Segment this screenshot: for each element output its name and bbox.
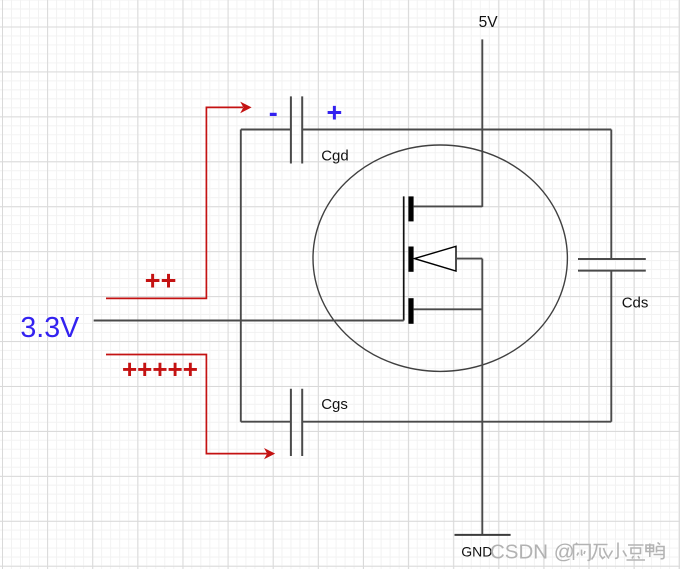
transistor M1 body diode arrow	[415, 246, 457, 271]
wire gate horizontal from 3.3V	[94, 320, 404, 322]
svg-text:Cgs: Cgs	[321, 396, 348, 413]
annotation arrowhead upper (red)	[240, 102, 251, 114]
svg-text:+: +	[327, 98, 343, 128]
transistor M1 drain contact bar	[408, 196, 413, 221]
wire right vertical upper segment	[610, 130, 612, 260]
watermark CJK glyph blocks	[574, 543, 665, 561]
svg-text:Cgd: Cgd	[321, 148, 349, 165]
wire top loop left segment	[241, 129, 291, 131]
wire top loop right segment	[302, 129, 611, 131]
ground	[455, 534, 511, 536]
capacitor Cgd	[291, 96, 302, 163]
transistor M1 drain lead	[414, 205, 483, 207]
wire bottom loop right segment	[302, 421, 611, 423]
capacitor Cgs	[291, 389, 302, 456]
annotation arrow lower (red) from gate region to Cgs	[106, 355, 267, 454]
transistor M1 NMOS envelope circle	[313, 145, 567, 371]
svg-text:CSDN @: CSDN @	[490, 540, 575, 563]
svg-text:Cds: Cds	[622, 295, 649, 312]
svg-text:3.3V: 3.3V	[20, 312, 79, 344]
svg-text:GND: GND	[461, 544, 492, 560]
svg-text:++: ++	[145, 266, 177, 296]
wire source to ground vertical	[481, 259, 483, 535]
svg-text:+++++: +++++	[122, 354, 198, 384]
annotation arrowhead lower (red)	[264, 448, 275, 459]
svg-text:-: -	[269, 98, 278, 128]
transistor M1 body lead	[456, 258, 482, 260]
transistor M1 gate line	[403, 196, 405, 320]
wire bottom loop left segment	[241, 421, 291, 423]
transistor M1 source lead	[414, 308, 483, 310]
transistor M1 body contact bar	[408, 247, 413, 272]
svg-text:5V: 5V	[479, 14, 499, 31]
wire 5V supply vertical	[481, 39, 483, 207]
transistor M1 source contact bar	[408, 298, 413, 324]
wire left vertical of loop	[240, 130, 242, 422]
capacitor Cds	[578, 259, 646, 271]
wire right vertical lower segment	[610, 271, 612, 422]
annotation arrow upper (red) from gate region to Cgd	[106, 107, 243, 298]
